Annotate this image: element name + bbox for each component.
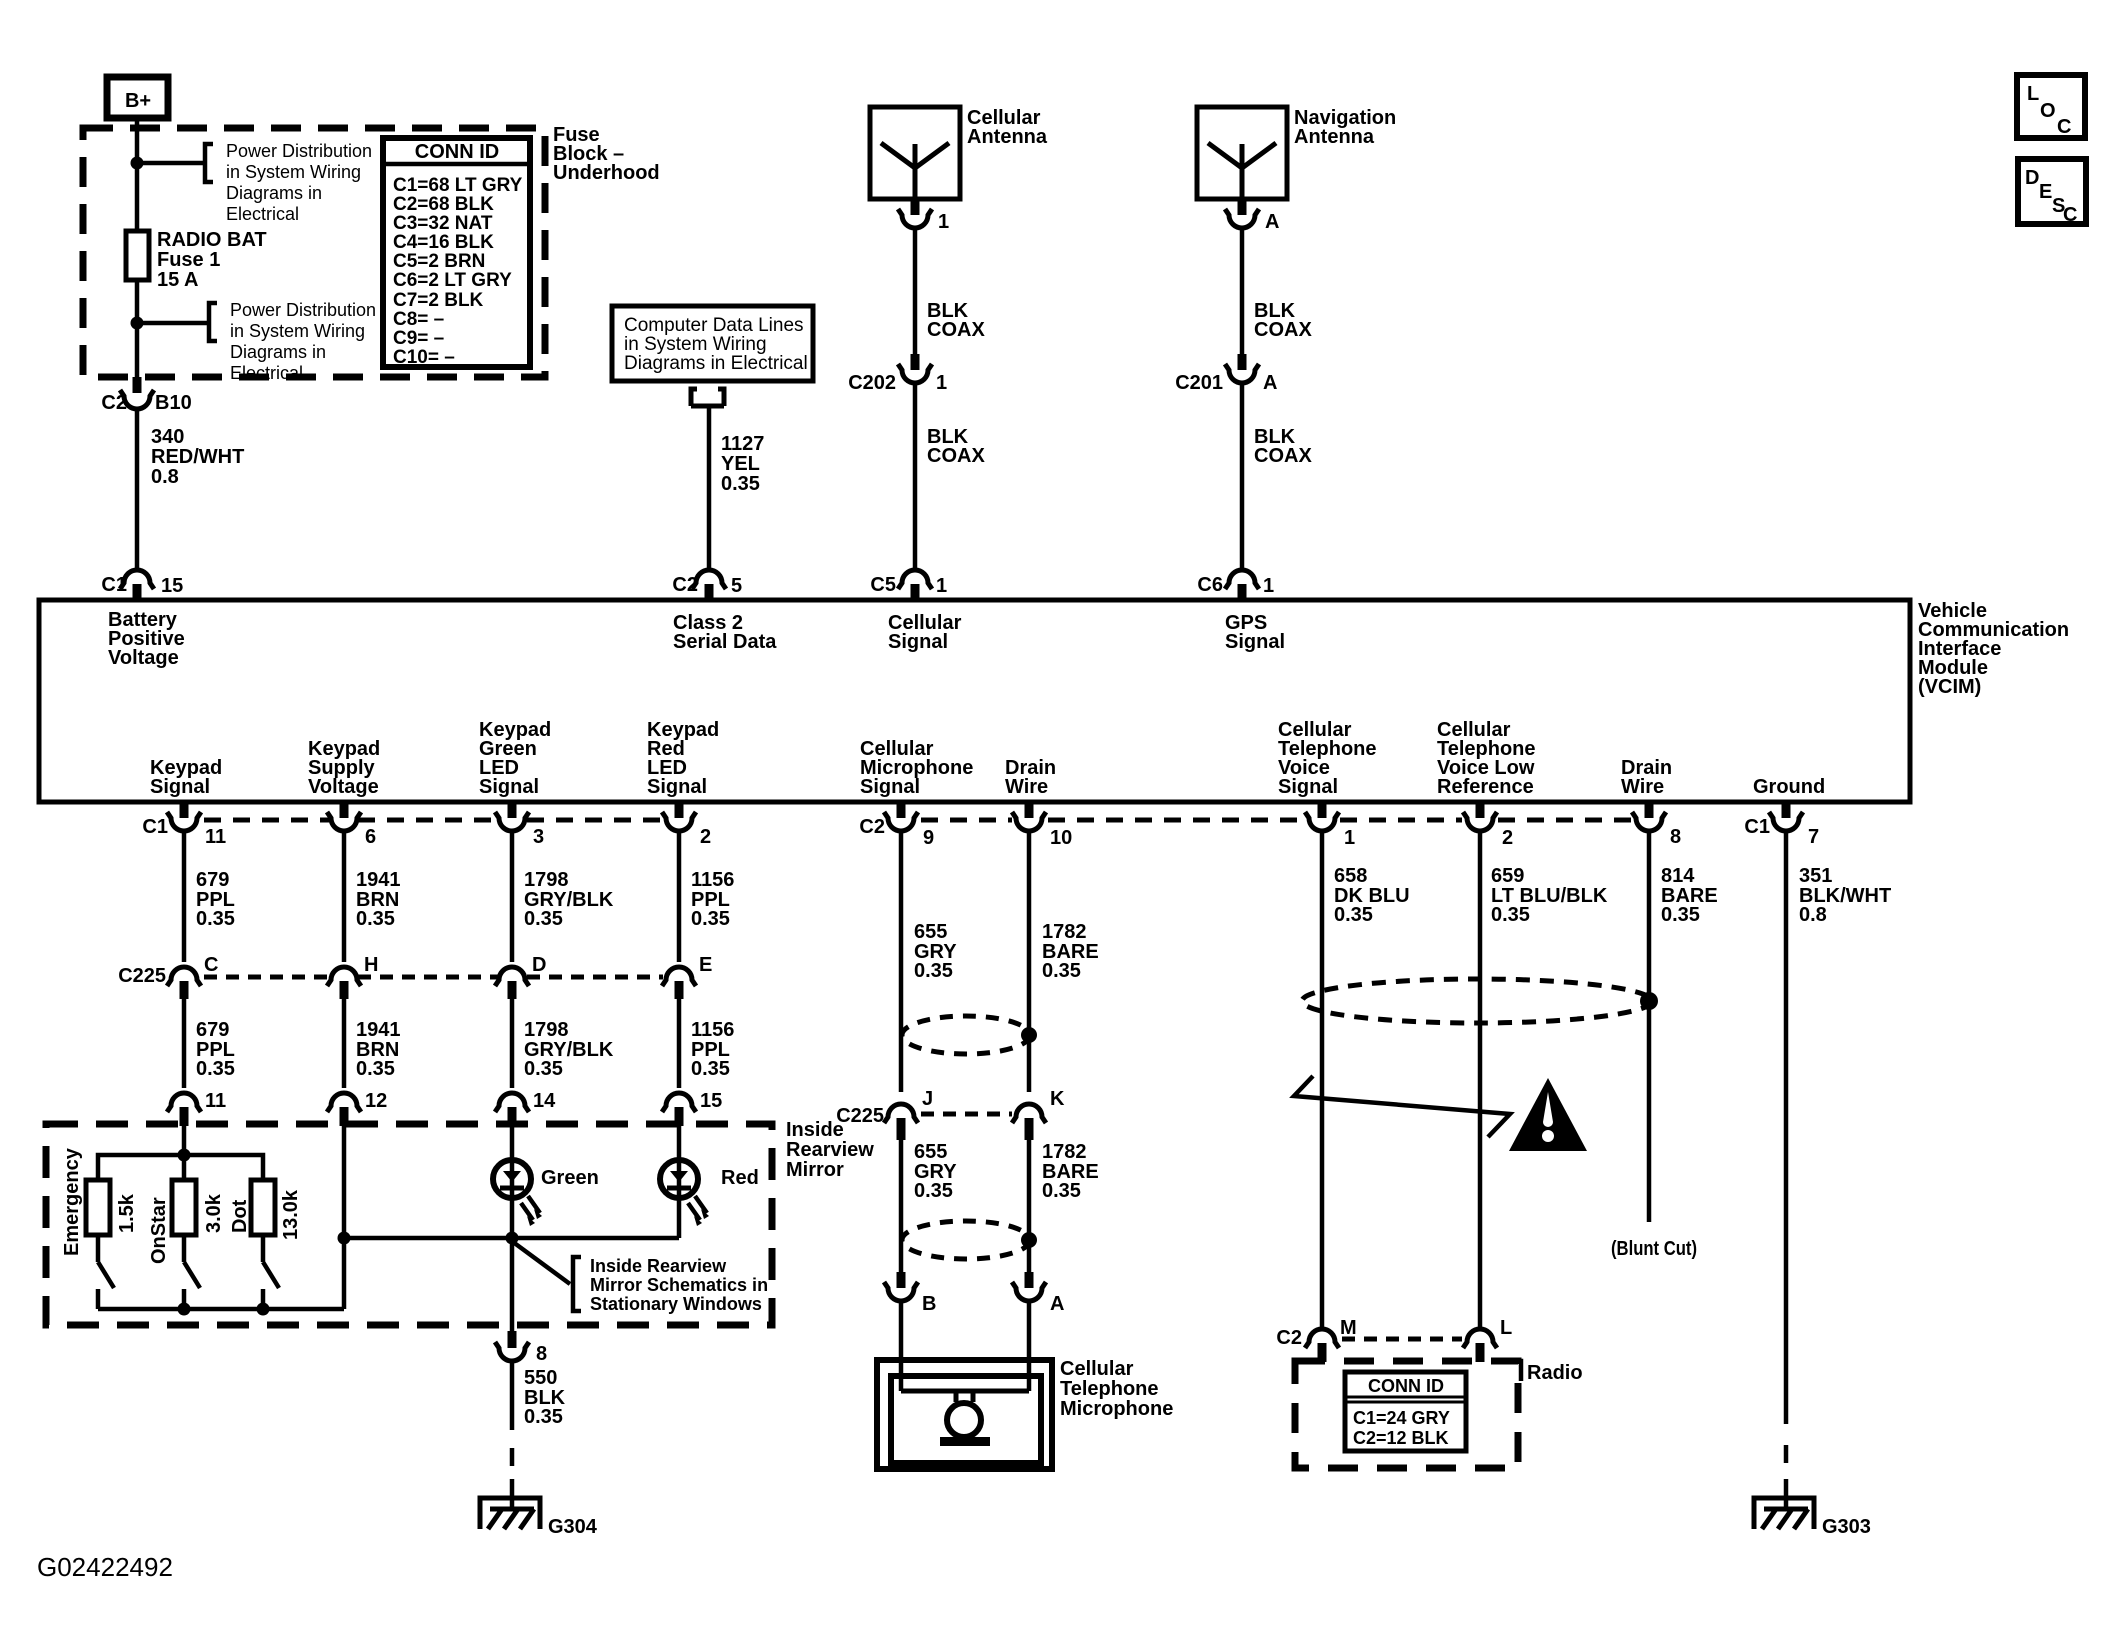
node branch 1 junction [131, 157, 144, 170]
svg-text:C225: C225 [118, 965, 166, 987]
svg-text:Signal: Signal [1278, 776, 1338, 798]
resistor 1.5k Emergency [61, 1147, 138, 1256]
svg-text:C: C [2063, 204, 2077, 226]
svg-text:A: A [1265, 211, 1279, 233]
svg-text:Diagrams in: Diagrams in [226, 183, 322, 203]
svg-text:0.35: 0.35 [1334, 904, 1373, 926]
svg-text:1: 1 [938, 211, 949, 233]
wire 679 PPL lower [182, 997, 187, 1088]
antenna terminal 1 [898, 199, 949, 233]
VCIM module box [39, 600, 1910, 802]
svg-text:1: 1 [1344, 827, 1355, 849]
svg-text:Serial Data: Serial Data [673, 631, 777, 653]
fuse block underhood dashed box [83, 128, 545, 377]
svg-text:679: 679 [196, 869, 229, 891]
svg-text:Power Distribution: Power Distribution [226, 141, 372, 161]
connector mic pin A [1012, 1272, 1064, 1315]
svg-text:Microphone: Microphone [1060, 1398, 1173, 1420]
svg-text:Power Distribution: Power Distribution [230, 300, 376, 320]
wire resistor top rail [98, 1155, 263, 1180]
svg-text:C5: C5 [870, 574, 896, 596]
svg-text:Signal: Signal [888, 631, 948, 653]
wire 1798 GRY/BLK lower [510, 997, 515, 1088]
svg-text:3.0k: 3.0k [203, 1193, 225, 1233]
svg-text:0.35: 0.35 [524, 1406, 563, 1428]
svg-text:Voltage: Voltage [108, 647, 179, 669]
switch dot [263, 1235, 279, 1309]
DESC box [2018, 159, 2086, 226]
svg-text:15: 15 [161, 575, 183, 597]
svg-text:658: 658 [1334, 865, 1367, 887]
fuse RADIO BAT Fuse 1 15 A [126, 229, 267, 291]
svg-text:0.35: 0.35 [691, 908, 730, 930]
svg-text:659: 659 [1491, 865, 1524, 887]
connector C225 pin E [662, 954, 712, 999]
antenna terminal A [1225, 199, 1279, 233]
dashed connector line C2 radio [1342, 1337, 1462, 1342]
shield ellipse upper (microphone) [902, 1016, 1030, 1054]
svg-text:C5=2 BRN: C5=2 BRN [393, 251, 485, 272]
connector C225 pin C [118, 954, 218, 999]
svg-text:H: H [364, 954, 378, 976]
svg-text:1941: 1941 [356, 1019, 401, 1041]
svg-text:1798: 1798 [524, 1019, 569, 1041]
svg-text:(VCIM): (VCIM) [1918, 676, 1981, 698]
svg-text:Inside: Inside [786, 1119, 844, 1141]
svg-text:3: 3 [533, 826, 544, 848]
svg-text:Mirror Schematics in: Mirror Schematics in [590, 1275, 768, 1295]
connector C1 pin 11 [142, 804, 226, 848]
svg-text:C4=16 BLK: C4=16 BLK [393, 232, 494, 253]
svg-text:655: 655 [914, 921, 947, 943]
svg-text:C8= –: C8= – [393, 309, 444, 330]
svg-text:L: L [2027, 83, 2039, 105]
wire branch 2 [137, 321, 209, 326]
wire keypad supply voltage vertical [342, 1126, 347, 1309]
wire 659 LT BLU/BLK [1478, 831, 1483, 1328]
connector pin 1 (voice signal) [1305, 804, 1355, 849]
label inside rearview mirror [786, 1119, 874, 1181]
leader arrow twisted pair [1294, 1076, 1510, 1137]
svg-text:C7=2 BLK: C7=2 BLK [393, 290, 484, 311]
resistor 13.0k Dot [229, 1180, 302, 1240]
connector C201 A [1175, 354, 1277, 394]
svg-text:Computer Data Lines: Computer Data Lines [624, 315, 804, 336]
radio dashed box [1295, 1361, 1518, 1468]
svg-text:7: 7 [1808, 826, 1819, 848]
svg-text:C9= –: C9= – [393, 328, 444, 349]
svg-text:15 A: 15 A [157, 269, 199, 291]
wire B+ to fuse [135, 118, 140, 231]
svg-text:0.35: 0.35 [1491, 904, 1530, 926]
svg-text:11: 11 [205, 826, 226, 848]
pin label gps signal [1225, 612, 1285, 653]
CONN ID table radio [1345, 1372, 1466, 1451]
node junction top rail [178, 1149, 191, 1162]
label cellular telephone microphone [1060, 1358, 1173, 1420]
svg-text:0.35: 0.35 [524, 908, 563, 930]
svg-text:1: 1 [936, 372, 947, 394]
svg-text:Ground: Ground [1753, 776, 1825, 798]
svg-text:0.35: 0.35 [524, 1058, 563, 1080]
svg-text:814: 814 [1661, 865, 1695, 887]
reference text mirror schematics [590, 1256, 768, 1314]
svg-text:K: K [1050, 1088, 1065, 1110]
label vehicle communication interface module [1918, 600, 2069, 698]
svg-text:1782: 1782 [1042, 1141, 1087, 1163]
svg-text:655: 655 [914, 1141, 947, 1163]
svg-text:C: C [2057, 116, 2071, 138]
svg-text:679: 679 [196, 1019, 229, 1041]
dashed connector line C225 JK [921, 1112, 1012, 1117]
svg-text:in System Wiring: in System Wiring [230, 321, 365, 341]
svg-text:OnStar: OnStar [148, 1197, 170, 1264]
node green junction [506, 1232, 519, 1245]
svg-text:Reference: Reference [1437, 776, 1534, 798]
dashed connector line C1 [204, 818, 663, 823]
svg-text:1798: 1798 [524, 869, 569, 891]
pin label drain wire (right) [1621, 757, 1672, 798]
svg-text:0.35: 0.35 [356, 1058, 395, 1080]
svg-text:C2=68 BLK: C2=68 BLK [393, 194, 494, 215]
svg-text:C6: C6 [1197, 574, 1223, 596]
shield ellipse radio pair [1302, 979, 1652, 1023]
svg-text:C2=12 BLK: C2=12 BLK [1353, 1428, 1449, 1448]
connector mirror pin 12 [327, 1090, 387, 1126]
connector mic pin B [884, 1272, 936, 1315]
svg-text:C: C [204, 954, 218, 976]
svg-text:Antenna: Antenna [1294, 126, 1375, 148]
resistor 3.0k OnStar [148, 1180, 225, 1264]
svg-text:C1: C1 [142, 816, 168, 838]
connector C1 15 VCIM [101, 570, 183, 600]
svg-text:C2: C2 [672, 574, 698, 596]
svg-text:C2: C2 [101, 392, 127, 414]
svg-text:0.35: 0.35 [1042, 1180, 1081, 1202]
wire 655 GRY upper [899, 831, 904, 1092]
pin label cellular telephone voice signal [1278, 719, 1377, 798]
svg-text:550: 550 [524, 1367, 557, 1389]
svg-text:in System Wiring: in System Wiring [624, 334, 767, 355]
svg-text:Wire: Wire [1621, 776, 1664, 798]
connector C225 pin D [495, 954, 546, 999]
wire 1156 PPL lower [677, 997, 682, 1088]
svg-text:351: 351 [1799, 865, 1832, 887]
svg-text:G304: G304 [548, 1516, 598, 1538]
svg-text:G303: G303 [1822, 1516, 1871, 1538]
svg-text:Wire: Wire [1005, 776, 1048, 798]
wire green LED to pin 8 [510, 1238, 515, 1331]
svg-text:CONN ID: CONN ID [415, 141, 499, 163]
wire 1156 PPL upper [677, 831, 682, 962]
svg-text:RED/WHT: RED/WHT [151, 446, 244, 468]
connector C2 pin M radio [1276, 1317, 1356, 1362]
ground G304 [480, 1479, 598, 1538]
wire 1127 YEL [707, 406, 712, 571]
svg-text:Signal: Signal [860, 776, 920, 798]
svg-text:C1=24 GRY: C1=24 GRY [1353, 1408, 1450, 1428]
svg-text:YEL: YEL [721, 453, 760, 475]
pin label keypad signal [150, 757, 222, 798]
svg-text:COAX: COAX [927, 319, 985, 341]
svg-text:Underhood: Underhood [553, 162, 660, 184]
svg-text:Red: Red [721, 1167, 759, 1189]
svg-text:C202: C202 [848, 372, 896, 394]
svg-text:Telephone: Telephone [1060, 1378, 1159, 1400]
connector C5 1 VCIM [870, 570, 947, 600]
svg-text:0.35: 0.35 [196, 1058, 235, 1080]
svg-text:G02422492: G02422492 [37, 1552, 173, 1582]
svg-text:B10: B10 [155, 392, 192, 414]
svg-text:D: D [2025, 167, 2039, 189]
connector C2 pin 9 [859, 804, 934, 849]
svg-text:C2: C2 [1276, 1327, 1302, 1349]
wire 1782 BARE lower [1027, 1138, 1032, 1272]
connector pin 8 below mirror box [495, 1331, 547, 1365]
reference text power distribution 2 [230, 300, 376, 383]
wire 655 GRY lower [899, 1138, 904, 1272]
LED red [660, 1126, 759, 1238]
svg-text:Electrical: Electrical [226, 204, 299, 224]
svg-text:C6=2 LT GRY: C6=2 LT GRY [393, 270, 512, 291]
connector pin 2 (voice low) [1463, 804, 1513, 849]
svg-text:Diagrams in Electrical: Diagrams in Electrical [624, 353, 808, 374]
svg-text:J: J [922, 1088, 933, 1110]
svg-text:(Blunt Cut): (Blunt Cut) [1611, 1238, 1697, 1260]
svg-text:COAX: COAX [1254, 445, 1312, 467]
svg-text:B: B [922, 1293, 936, 1315]
LED green [493, 1126, 599, 1238]
node shield drain junction upper [1021, 1027, 1037, 1043]
label fuse block underhood [553, 124, 660, 184]
svg-text:1.5k: 1.5k [116, 1193, 138, 1233]
svg-text:Fuse 1: Fuse 1 [157, 249, 220, 271]
pin label battery positive voltage [108, 609, 185, 669]
svg-text:Inside Rearview: Inside Rearview [590, 1256, 727, 1276]
svg-text:A: A [1050, 1293, 1064, 1315]
CONN ID table fuse block [383, 138, 530, 368]
wire 658 DK BLU [1320, 831, 1325, 1328]
wire 1798 GRY/BLK upper [510, 831, 515, 962]
pin label keypad supply voltage [308, 738, 380, 798]
svg-text:14: 14 [533, 1090, 556, 1112]
svg-text:0.35: 0.35 [914, 960, 953, 982]
svg-text:L: L [1500, 1317, 1512, 1339]
svg-text:Signal: Signal [150, 776, 210, 798]
connector pin 10 [1012, 804, 1072, 849]
connector pin 3 [495, 804, 544, 848]
wire 814 BARE drain [1647, 831, 1652, 1222]
shield ellipse lower (microphone) [902, 1221, 1030, 1259]
svg-text:340: 340 [151, 426, 184, 448]
svg-text:2: 2 [1502, 827, 1513, 849]
svg-text:Dot: Dot [229, 1199, 251, 1233]
node shield drain junction lower [1021, 1232, 1037, 1248]
svg-text:Green: Green [541, 1167, 599, 1189]
node branch 2 junction [131, 317, 144, 330]
battery feed B+ [107, 77, 168, 118]
connector C6 1 VCIM [1197, 570, 1274, 600]
pin label drain wire (left) [1005, 757, 1056, 798]
svg-text:E: E [2039, 181, 2052, 203]
wire 550 BLK [510, 1361, 515, 1466]
svg-text:C1: C1 [101, 574, 127, 596]
connector pin 6 [327, 804, 376, 848]
warning triangle [1509, 1078, 1587, 1151]
pin label keypad red LED signal [647, 719, 719, 798]
reference text power distribution 1 [226, 141, 372, 224]
svg-text:0.8: 0.8 [1799, 904, 1827, 926]
callout bracket mirror schematics [573, 1257, 581, 1311]
svg-text:Signal: Signal [647, 776, 707, 798]
svg-text:C1: C1 [1744, 816, 1770, 838]
svg-text:Electrical: Electrical [230, 363, 303, 383]
connector C2 5 VCIM [672, 570, 742, 600]
svg-text:5: 5 [731, 575, 742, 597]
svg-text:D: D [532, 954, 546, 976]
pin label cellular signal [888, 612, 962, 653]
wire branch 1 [137, 161, 205, 166]
svg-text:11: 11 [205, 1090, 226, 1112]
dashed connector line C2 [921, 818, 1632, 823]
svg-text:0.8: 0.8 [151, 466, 179, 488]
svg-text:Emergency: Emergency [61, 1147, 83, 1256]
connector pin 8 (drain) [1632, 804, 1681, 848]
wire BLK COAX upper (cellular) [913, 228, 918, 354]
svg-text:1156: 1156 [691, 1019, 734, 1041]
svg-text:COAX: COAX [927, 445, 985, 467]
radio label bracket [1510, 1361, 1521, 1381]
svg-text:C10= –: C10= – [393, 347, 455, 368]
svg-text:E: E [699, 954, 712, 976]
connector C202 1 [848, 354, 947, 394]
svg-text:1: 1 [1263, 575, 1274, 597]
callout bracket power distribution 1 [205, 144, 213, 182]
svg-text:0.35: 0.35 [1661, 904, 1700, 926]
wire 679 PPL upper [182, 831, 187, 962]
svg-text:O: O [2040, 100, 2056, 122]
callout bracket power distribution 2 [209, 303, 217, 341]
wire BLK COAX lower (gps) [1240, 383, 1245, 569]
connector C225 pin H [327, 954, 378, 999]
connector pin 2 (keypad red) [662, 804, 711, 848]
switch onstar [184, 1235, 200, 1309]
pin label class 2 serial data [673, 612, 777, 653]
svg-text:Rearview: Rearview [786, 1139, 874, 1161]
svg-text:1941: 1941 [356, 869, 401, 891]
svg-text:Stationary Windows: Stationary Windows [590, 1294, 762, 1314]
svg-text:C2: C2 [859, 816, 885, 838]
svg-text:RADIO BAT: RADIO BAT [157, 229, 267, 251]
svg-text:CONN ID: CONN ID [1368, 1376, 1444, 1396]
svg-text:in System Wiring: in System Wiring [226, 162, 361, 182]
ground G303 [1754, 1479, 1871, 1538]
svg-text:Antenna: Antenna [967, 126, 1048, 148]
svg-text:B+: B+ [125, 90, 151, 112]
svg-text:Signal: Signal [1225, 631, 1285, 653]
wire keypad signal into resistors [182, 1126, 187, 1180]
dashed connector line C225 [204, 975, 663, 980]
wire 1941 BRN lower [342, 997, 347, 1088]
svg-text:Radio: Radio [1527, 1362, 1583, 1384]
svg-text:15: 15 [700, 1090, 722, 1112]
wire LED cathode rail [344, 1236, 679, 1241]
svg-text:Signal: Signal [479, 776, 539, 798]
connector mirror pin 14 [495, 1090, 556, 1126]
svg-text:C1=68 LT GRY: C1=68 LT GRY [393, 175, 523, 196]
svg-text:Diagrams in: Diagrams in [230, 342, 326, 362]
svg-text:0.35: 0.35 [691, 1058, 730, 1080]
svg-text:0.35: 0.35 [914, 1180, 953, 1202]
navigation antenna [1197, 107, 1396, 199]
node rail junction 3 [257, 1303, 270, 1316]
pin label cellular microphone signal [860, 738, 973, 798]
wire 1941 BRN upper [342, 831, 347, 962]
svg-text:13.0k: 13.0k [280, 1189, 302, 1240]
svg-text:C3=32 NAT: C3=32 NAT [393, 213, 493, 234]
svg-text:M: M [1340, 1317, 1357, 1339]
connector C1 pin 7 (ground) [1744, 804, 1819, 848]
svg-text:8: 8 [536, 1343, 547, 1365]
svg-text:1: 1 [936, 575, 947, 597]
svg-text:Cellular: Cellular [1060, 1358, 1134, 1380]
connector pin L radio [1463, 1317, 1512, 1362]
svg-text:8: 8 [1670, 826, 1681, 848]
pin label keypad green LED signal [479, 719, 551, 798]
svg-text:2: 2 [700, 826, 711, 848]
svg-text:0.35: 0.35 [1042, 960, 1081, 982]
staple bracket under data lines box [691, 389, 724, 406]
connector C2 B10 [101, 377, 191, 414]
svg-text:9: 9 [923, 827, 934, 849]
cellular antenna [870, 107, 1048, 199]
svg-text:6: 6 [365, 826, 376, 848]
connector C225 pin J [836, 1088, 933, 1140]
switch emergency [98, 1235, 114, 1309]
pin label cellular telephone voice low reference [1437, 719, 1536, 798]
wire switch common rail [98, 1307, 344, 1312]
svg-text:1127: 1127 [721, 433, 764, 455]
svg-text:C201: C201 [1175, 372, 1223, 394]
connector mirror pin 11 [167, 1090, 226, 1126]
wire BLK COAX upper (gps) [1240, 228, 1245, 354]
reference box computer data lines [612, 306, 813, 381]
node shield drain junction radio [1640, 992, 1658, 1010]
cellular telephone microphone box [877, 1301, 1052, 1469]
svg-text:COAX: COAX [1254, 319, 1312, 341]
svg-text:10: 10 [1050, 827, 1072, 849]
svg-text:0.35: 0.35 [196, 908, 235, 930]
node rail junction 2 [178, 1303, 191, 1316]
wire fuse to connector [135, 280, 140, 379]
node LED rail junction [338, 1232, 351, 1245]
svg-text:12: 12 [365, 1090, 387, 1112]
svg-text:0.35: 0.35 [721, 473, 760, 495]
svg-text:Voltage: Voltage [308, 776, 379, 798]
inside rearview mirror dashed box [46, 1124, 772, 1325]
svg-text:A: A [1263, 372, 1277, 394]
connector mirror pin 15 [662, 1090, 722, 1126]
callout leader mirror schematics [513, 1242, 570, 1284]
wire BLK COAX lower (cellular) [913, 383, 918, 569]
svg-text:C225: C225 [836, 1105, 884, 1127]
LOC box [2017, 75, 2085, 138]
wire 1782 BARE upper [1027, 831, 1032, 1092]
svg-text:1782: 1782 [1042, 921, 1087, 943]
connector C225 pin K [1012, 1088, 1065, 1140]
svg-text:1156: 1156 [691, 869, 734, 891]
svg-text:0.35: 0.35 [356, 908, 395, 930]
